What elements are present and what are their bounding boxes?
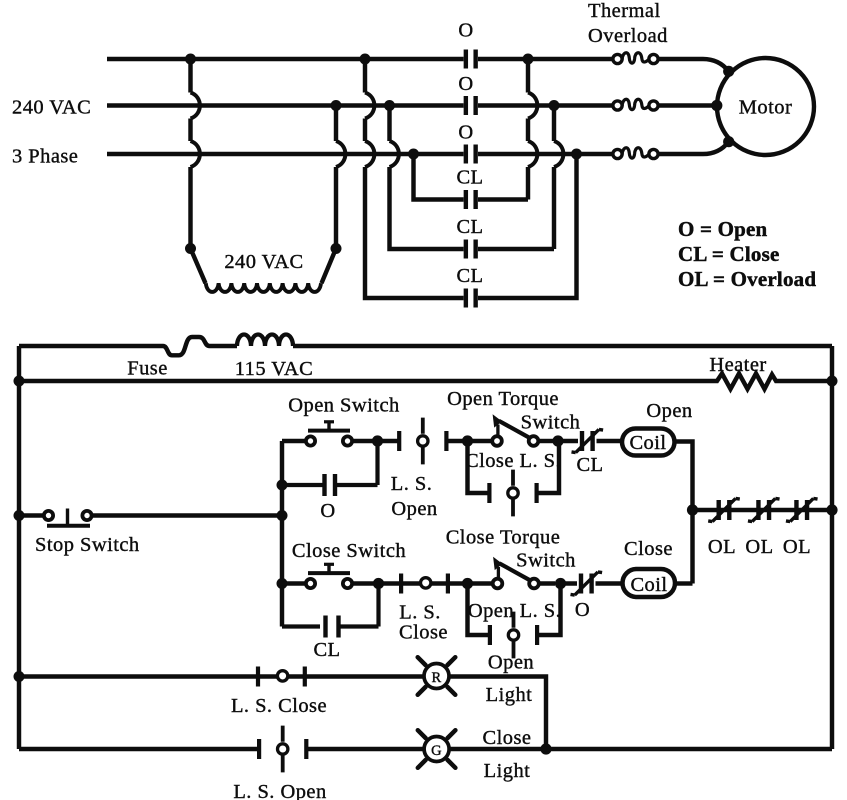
coil 115 VAC <box>237 335 293 346</box>
hop <box>336 141 345 167</box>
contact OL1 <box>708 498 740 521</box>
node OL left <box>687 504 698 515</box>
node left rail 515 <box>14 510 25 521</box>
motor M1 <box>717 58 814 155</box>
coil Open <box>622 429 675 456</box>
close torque switch <box>493 557 539 589</box>
wire branch vertical x282 <box>280 441 284 627</box>
svg-text:Coil: Coil <box>629 432 666 454</box>
contact CL2 <box>466 240 476 259</box>
svg-text:CL = Close: CL = Close <box>678 242 779 266</box>
svg-text:O: O <box>575 599 590 621</box>
hop <box>365 141 374 167</box>
thermal overload OL3 <box>613 148 658 159</box>
svg-text:O = Open: O = Open <box>678 217 768 241</box>
svg-text:Heater: Heater <box>709 354 766 376</box>
svg-text:Coil: Coil <box>630 574 667 596</box>
node L2 x554 <box>549 100 560 111</box>
svg-text:3 Phase: 3 Phase <box>12 146 78 168</box>
svg-text:Fuse: Fuse <box>127 358 168 380</box>
node right rail 381 <box>827 376 838 387</box>
svg-text:CL: CL <box>313 639 340 661</box>
node L2 x336 <box>331 100 342 111</box>
svg-text:Open Switch: Open Switch <box>288 395 399 417</box>
stop switch SW1 <box>19 513 44 517</box>
svg-text:Close Switch: Close Switch <box>292 540 406 562</box>
open torque switch <box>492 414 538 446</box>
svg-text:Close L. S.: Close L. S. <box>465 450 561 472</box>
contact O (NC) in close line <box>561 581 622 585</box>
node L3 x413 <box>408 149 419 160</box>
svg-text:Light: Light <box>484 760 531 782</box>
wire right rail <box>830 346 834 749</box>
svg-text:Light: Light <box>486 684 533 706</box>
node open torque left <box>462 435 473 446</box>
thermal overload OL2 <box>613 99 658 110</box>
node open torque right <box>552 435 563 446</box>
node motor top-left <box>723 66 734 77</box>
svg-text:CL: CL <box>456 265 483 287</box>
lamp G <box>418 730 456 768</box>
wire R light line <box>19 674 424 678</box>
node stop switch to branch <box>277 510 288 521</box>
svg-text:R: R <box>431 670 441 686</box>
node close switch left <box>277 578 288 589</box>
close L.S. bypass branch <box>468 441 560 493</box>
svg-text:Switch: Switch <box>516 550 576 572</box>
node L1 x528 <box>523 54 534 65</box>
contact CL seal-in <box>282 584 379 627</box>
wire G light line <box>19 747 424 751</box>
node L1 x365 <box>360 54 371 65</box>
contact O2 <box>466 96 476 115</box>
svg-text:Open Torque: Open Torque <box>447 388 559 410</box>
hop <box>528 141 537 167</box>
svg-text:CL: CL <box>456 216 483 238</box>
lamp R <box>418 657 456 695</box>
close switch pushbutton <box>306 564 352 588</box>
svg-text:L. S. Close: L. S. Close <box>231 695 327 717</box>
svg-text:O: O <box>458 20 473 42</box>
svg-text:G: G <box>431 743 442 759</box>
transformer primary 240 VAC <box>191 249 337 284</box>
wire OL line <box>693 508 833 512</box>
wire open coil to OL line <box>676 442 693 511</box>
svg-text:Switch: Switch <box>521 412 581 434</box>
svg-text:Open: Open <box>391 498 437 520</box>
svg-text:Close: Close <box>483 727 532 749</box>
wire vertical L1 to transformer left <box>188 59 192 249</box>
node close switch right <box>373 578 384 589</box>
hop <box>554 141 563 167</box>
svg-text:O: O <box>458 73 473 95</box>
svg-text:OL = Overload: OL = Overload <box>678 267 816 291</box>
contact Open L.S. <box>490 612 537 659</box>
svg-text:Open L. S.: Open L. S. <box>468 600 561 622</box>
svg-text:115 VAC: 115 VAC <box>235 358 314 380</box>
hop <box>365 93 374 119</box>
contact Close L.S. <box>489 470 536 517</box>
svg-text:CL: CL <box>456 167 483 189</box>
svg-text:Open: Open <box>488 652 534 674</box>
node open seal-in left <box>277 480 288 491</box>
wire top rail with fuse and 115 VAC coil <box>19 337 237 355</box>
svg-text:Overload: Overload <box>588 25 668 47</box>
wire second rail with heater <box>19 374 832 390</box>
node close torque left <box>462 578 473 589</box>
node L2 x389 <box>384 100 395 111</box>
contact L.S. Close (R line) <box>258 667 305 687</box>
svg-text:Motor: Motor <box>739 97 793 119</box>
svg-text:L. S.: L. S. <box>399 602 441 624</box>
node motor bottom-left <box>723 136 734 147</box>
contact OL3 <box>786 498 818 521</box>
limit switch L.S. Open (open circuit) <box>399 418 446 465</box>
node transformer right <box>331 243 342 254</box>
hop <box>528 93 537 119</box>
hop <box>390 141 399 167</box>
node transformer left <box>185 243 196 254</box>
wire close coil to vertical <box>677 581 693 585</box>
hop <box>191 141 200 167</box>
wire phase L2 horizontal <box>107 103 717 107</box>
limit switch L.S. Close (closed) in close line <box>401 574 448 594</box>
node L3 x576 <box>571 149 582 160</box>
svg-text:Thermal: Thermal <box>588 0 661 22</box>
contact O3 <box>466 145 476 164</box>
contact OL2 <box>748 498 780 521</box>
wire vertical L2 to transformer right <box>334 106 338 249</box>
svg-text:240 VAC: 240 VAC <box>12 97 91 119</box>
open switch pushbutton <box>306 422 352 446</box>
wire OL line down to close coil <box>690 510 694 584</box>
svg-text:Close Torque: Close Torque <box>446 527 561 549</box>
svg-text:Close: Close <box>399 622 448 644</box>
wire left rail <box>17 346 21 749</box>
node L1 x190 <box>185 54 196 65</box>
coil Close <box>623 569 676 597</box>
svg-text:Open: Open <box>646 400 692 422</box>
hop <box>191 93 200 119</box>
svg-text:CL: CL <box>576 454 603 476</box>
wire open switch line <box>282 439 493 443</box>
open L.S. bypass branch <box>468 584 561 636</box>
contact CL3 <box>466 289 476 308</box>
svg-text:O: O <box>458 122 473 144</box>
svg-text:OL: OL <box>708 536 736 558</box>
svg-text:Close: Close <box>624 538 673 560</box>
svg-text:L. S. Open: L. S. Open <box>233 781 326 800</box>
wire phase L3 horizontal <box>107 142 729 154</box>
wire R light to G line <box>449 677 546 750</box>
node R G join <box>540 743 551 754</box>
wire CL1 right to L1 <box>478 59 528 200</box>
wire L1 down to CL3 left <box>365 59 464 298</box>
node motor left <box>711 100 722 111</box>
thermal overload OL1 <box>613 53 658 64</box>
node left rail 676 <box>14 671 25 682</box>
contact O1 <box>466 50 476 69</box>
svg-text:240 VAC: 240 VAC <box>224 251 303 273</box>
wire close switch line <box>282 581 493 585</box>
svg-text:OL: OL <box>745 536 773 558</box>
node left rail 381 <box>14 376 25 387</box>
wire G light to right rail <box>449 747 832 751</box>
svg-text:OL: OL <box>783 536 811 558</box>
contact CL1 <box>466 190 476 209</box>
svg-text:L. S.: L. S. <box>391 473 433 495</box>
node OL right <box>826 504 837 515</box>
wire CL3 right to L3 <box>478 154 577 298</box>
wire L3 down to CL1 left <box>414 154 464 200</box>
svg-text:O: O <box>320 500 335 522</box>
contact CL (NC) in open line <box>558 439 621 443</box>
contact L.S. Open (G line) <box>259 726 306 773</box>
svg-text:Stop Switch: Stop Switch <box>35 534 140 556</box>
node open switch right <box>372 435 383 446</box>
node close torque right <box>555 578 566 589</box>
wire L2 down to CL2 left <box>390 106 464 250</box>
wire CL2 right to L2 <box>478 106 554 250</box>
contact O seal-in <box>282 441 378 485</box>
wire phase L1 horizontal <box>107 59 729 71</box>
